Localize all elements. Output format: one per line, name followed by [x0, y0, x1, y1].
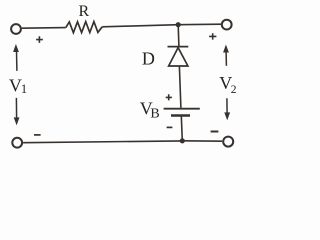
resistor R: [66, 22, 102, 33]
up arrow V1: [13, 44, 19, 71]
wire bottom-right segment: [182, 140, 222, 142]
diode D triangle: [169, 48, 188, 66]
terminal top-right: [222, 20, 232, 30]
battery minus sign: [167, 126, 173, 128]
svg-text:D: D: [142, 49, 155, 69]
junction node top: [176, 22, 181, 27]
down arrow V2: [224, 98, 230, 120]
down arrow V1: [14, 98, 20, 126]
battery plus sign: [166, 94, 172, 100]
up arrow V2: [223, 45, 229, 66]
wire diode to battery: [179, 67, 181, 108]
wire battery to bottom junction: [181, 116, 182, 141]
battery VB positive plate: [164, 108, 200, 110]
diode D cathode bar: [168, 46, 189, 48]
plus sign near top-left terminal: [36, 36, 43, 43]
svg-text:R: R: [79, 3, 90, 20]
battery VB negative plate: [171, 114, 190, 116]
terminal top-left: [11, 24, 21, 34]
wire top-right segment: [178, 23, 221, 26]
wire top-middle segment: [102, 25, 178, 27]
terminal bottom-right: [223, 137, 233, 147]
wire junction to diode: [177, 25, 180, 47]
terminal bottom-left: [12, 138, 22, 148]
wire bottom-left segment: [23, 141, 182, 143]
minus sign near bottom-left terminal: [34, 134, 41, 136]
wire top-left segment: [22, 27, 66, 30]
junction node bottom: [180, 138, 185, 143]
minus sign near bottom-right terminal: [211, 131, 219, 133]
plus sign near top-right terminal: [209, 33, 216, 39]
